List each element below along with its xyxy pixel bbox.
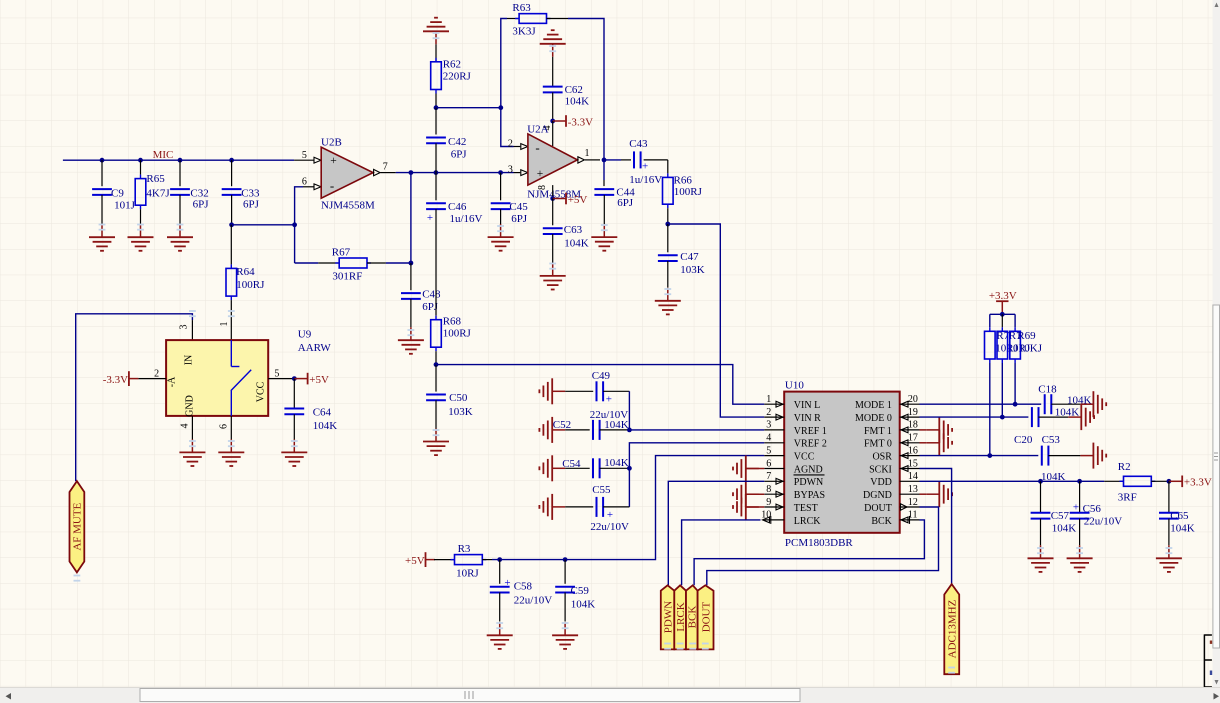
svg-text:+5V: +5V — [309, 374, 329, 386]
svg-text:VREF 1: VREF 1 — [794, 426, 827, 437]
svg-text:+3.3V: +3.3V — [1184, 477, 1212, 489]
svg-text:104K: 104K — [313, 420, 338, 432]
wire pin2 net — [501, 108, 514, 147]
svg-text:6PJ: 6PJ — [511, 213, 528, 225]
svg-text:PDWN: PDWN — [794, 477, 823, 488]
node output junction — [409, 170, 414, 175]
port AF MUTE — [70, 481, 85, 572]
svg-text:2: 2 — [508, 139, 513, 150]
power +3.3V pullups — [989, 290, 1017, 315]
svg-text:16: 16 — [908, 445, 918, 456]
ground R62 top — [423, 18, 449, 45]
power +5V U2A — [553, 193, 588, 206]
IC U10 PCM1803DBR — [761, 380, 919, 549]
capacitor C55 — [565, 484, 629, 533]
svg-text:OSR: OSR — [872, 452, 892, 463]
node junction R68/C50 — [434, 362, 439, 367]
capacitor C64 — [284, 379, 337, 440]
port DOUT — [698, 585, 714, 649]
capacitor C47 — [658, 224, 705, 288]
ground C63 — [540, 263, 566, 290]
svg-text:8: 8 — [766, 484, 771, 495]
node junction R63/pin2 — [498, 105, 503, 110]
capacitor C53 — [1041, 434, 1080, 483]
svg-text:20: 20 — [908, 394, 918, 405]
svg-text:103K: 103K — [680, 264, 705, 276]
power +5V U9 — [294, 373, 329, 386]
node junction +5V — [550, 196, 555, 201]
ground C32 — [167, 224, 193, 251]
svg-text:3RF: 3RF — [1118, 492, 1137, 504]
svg-text:R63: R63 — [512, 2, 531, 14]
svg-text:R64: R64 — [236, 266, 255, 278]
wire SCKI net — [920, 469, 952, 585]
wire OSR net — [920, 455, 1039, 457]
svg-text:19: 19 — [908, 407, 918, 418]
pin3 U9 lead — [179, 320, 193, 340]
svg-text:1u/16V: 1u/16V — [629, 174, 662, 186]
svg-text:C56: C56 — [1083, 503, 1102, 515]
capacitor C46 — [426, 173, 482, 316]
svg-text:14: 14 — [908, 471, 918, 482]
svg-text:BYPAS: BYPAS — [794, 490, 825, 501]
svg-text:-: - — [535, 140, 539, 155]
svg-text:IN: IN — [183, 355, 194, 366]
resistor R64 — [219, 225, 265, 340]
svg-text:R2: R2 — [1118, 461, 1131, 473]
svg-text:MIC: MIC — [153, 149, 174, 161]
svg-text:3: 3 — [766, 420, 771, 431]
svg-text:U2B: U2B — [321, 136, 342, 148]
svg-text:+3.3V: +3.3V — [989, 290, 1017, 302]
capacitor C44 — [594, 160, 635, 224]
wire MIC net — [63, 159, 294, 161]
svg-text:+5V: +5V — [405, 555, 425, 567]
capacitor C56 — [1070, 481, 1123, 545]
resistor R3 — [434, 543, 492, 580]
svg-text:MODE 1: MODE 1 — [855, 400, 892, 411]
svg-text:FMT 0: FMT 0 — [864, 439, 892, 450]
capacitor C50 — [426, 365, 473, 429]
capacitor C45 — [491, 173, 529, 225]
svg-text:1: 1 — [585, 148, 590, 159]
svg-text:104K: 104K — [604, 419, 629, 431]
ground AGND pin6 — [733, 456, 764, 482]
wire LRCK net — [682, 520, 761, 585]
wire VDD net — [920, 480, 1105, 482]
ground C48 — [398, 327, 424, 354]
svg-text:C64: C64 — [313, 407, 332, 419]
svg-text:-3.3V: -3.3V — [568, 116, 593, 128]
svg-text:C20: C20 — [1014, 434, 1033, 446]
port PDWN — [661, 585, 675, 649]
node MIC junction R65 — [138, 158, 143, 163]
wire pin4 U2A — [552, 121, 554, 146]
ground C45 — [488, 224, 514, 251]
node junction C33/pin6 — [292, 222, 297, 227]
svg-text:104K: 104K — [604, 457, 629, 469]
wire R69 to MODE1 — [1014, 363, 1016, 404]
svg-text:+: + — [504, 577, 510, 589]
port ADC13MHZ — [944, 584, 959, 674]
svg-text:C63: C63 — [564, 224, 583, 236]
capacitor C62 — [543, 57, 589, 121]
ground C49 — [539, 378, 565, 404]
svg-text:TEST: TEST — [794, 503, 818, 514]
ground C58 — [487, 622, 513, 649]
pin6 U9 + ground — [218, 416, 244, 466]
ground C47 — [655, 288, 681, 315]
wire VREF2 net — [629, 443, 764, 507]
svg-text:2: 2 — [154, 368, 159, 379]
node junction C42/C46 — [434, 170, 439, 175]
svg-text:GND: GND — [184, 395, 195, 417]
svg-text:18: 18 — [908, 420, 918, 431]
svg-text:+5V: +5V — [568, 194, 588, 206]
capacitor C43 — [604, 138, 668, 186]
svg-text:C46: C46 — [448, 201, 467, 213]
svg-text:DGND: DGND — [863, 490, 892, 501]
ground DGND pin13 — [920, 481, 953, 507]
wire pin6 to R67 — [295, 262, 319, 264]
svg-text:3K3J: 3K3J — [512, 25, 536, 37]
ground FMT0 pin17 — [920, 430, 953, 456]
svg-text:R66: R66 — [674, 175, 693, 187]
ground C57 — [1028, 545, 1054, 572]
svg-text:101J: 101J — [114, 199, 136, 211]
svg-text:C49: C49 — [592, 370, 611, 382]
svg-text:100RJ: 100RJ — [236, 279, 265, 291]
svg-text:104K: 104K — [1170, 523, 1195, 535]
svg-text:PCM1803DBR: PCM1803DBR — [785, 537, 854, 549]
svg-text:12: 12 — [908, 497, 918, 508]
svg-text:5: 5 — [766, 445, 771, 456]
svg-text:NJM4558M: NJM4558M — [321, 200, 375, 212]
svg-text:SCKI: SCKI — [869, 464, 892, 475]
svg-text:R3: R3 — [458, 543, 471, 555]
svg-text:22u/10V: 22u/10V — [1084, 516, 1123, 528]
svg-text:6PJ: 6PJ — [617, 197, 634, 209]
svg-text:104K: 104K — [571, 599, 596, 611]
ground C59 — [552, 622, 578, 649]
ground C18 — [1080, 391, 1106, 417]
svg-text:6: 6 — [302, 176, 307, 187]
svg-text:LRCK: LRCK — [794, 516, 821, 527]
resistor R68 — [431, 315, 472, 364]
switch inside U9 — [231, 340, 251, 416]
ground C20 — [1068, 404, 1094, 430]
svg-text:1u/16V: 1u/16V — [450, 213, 483, 225]
svg-text:LRCK: LRCK — [675, 602, 687, 631]
pin5 U9 lead — [268, 368, 294, 379]
svg-text:15: 15 — [908, 458, 918, 469]
capacitor C9 — [92, 160, 136, 224]
capacitor C33 — [222, 160, 260, 225]
svg-text:DOUT: DOUT — [700, 601, 712, 632]
ground FMT1 pin18 — [920, 417, 953, 443]
ground C64 — [281, 439, 307, 466]
svg-text:AGND: AGND — [794, 464, 823, 475]
svg-text:6PJ: 6PJ — [193, 198, 210, 210]
svg-text:5: 5 — [302, 150, 307, 161]
svg-text:C57: C57 — [1051, 510, 1070, 522]
svg-text:4K7J: 4K7J — [146, 187, 170, 199]
wire VIN L net — [436, 365, 764, 405]
capacitor C42 — [426, 108, 467, 173]
net label MIC — [153, 149, 174, 161]
svg-text:1: 1 — [766, 394, 771, 405]
svg-text:+: + — [642, 161, 648, 173]
capacitor C59 — [555, 560, 595, 622]
ground C54 — [539, 455, 565, 481]
svg-text:U2A: U2A — [527, 123, 548, 135]
svg-text:5: 5 — [274, 368, 279, 379]
svg-text:3: 3 — [508, 164, 513, 175]
node R67 junction — [409, 261, 414, 266]
resistor R62 — [431, 44, 472, 107]
wire VIN R net — [668, 224, 765, 417]
svg-text:AF MUTE: AF MUTE — [72, 502, 84, 550]
wire R71 to MODE0 — [1001, 363, 1003, 417]
wire DOUT net — [707, 507, 939, 585]
node junction C57 — [1038, 479, 1043, 484]
svg-text:-: - — [330, 178, 334, 193]
svg-text:6PJ: 6PJ — [243, 198, 260, 210]
wire AF MUTE to pin3 — [76, 314, 193, 481]
wire MODE0 net — [920, 416, 1029, 418]
svg-text:4: 4 — [766, 433, 771, 444]
svg-text:6PJ: 6PJ — [451, 149, 468, 161]
node junction R71 — [1000, 415, 1005, 420]
capacitor C20 — [1014, 406, 1079, 446]
svg-text:+: + — [607, 509, 613, 521]
node junction R66/C47 — [665, 222, 670, 227]
svg-text:C43: C43 — [629, 138, 648, 150]
svg-text:301RF: 301RF — [332, 270, 362, 282]
svg-text:C54: C54 — [562, 458, 581, 470]
svg-text:10KJ: 10KJ — [1019, 342, 1043, 354]
svg-text:R68: R68 — [443, 315, 462, 327]
ground C53 — [1080, 443, 1106, 469]
svg-text:C53: C53 — [1042, 434, 1061, 446]
svg-text:C48: C48 — [422, 289, 441, 301]
svg-text:VIN L: VIN L — [794, 400, 820, 411]
node MIC junction C9 — [100, 158, 105, 163]
resistor R69 — [1010, 327, 1043, 363]
wire R67 to node — [386, 262, 411, 264]
svg-text:FMT 1: FMT 1 — [864, 426, 892, 437]
node junction C56 — [1077, 479, 1082, 484]
svg-text:6: 6 — [766, 458, 771, 469]
svg-text:+: + — [537, 168, 544, 180]
svg-text:4: 4 — [180, 424, 191, 429]
svg-text:R67: R67 — [332, 246, 351, 258]
svg-text:C59: C59 — [571, 585, 590, 597]
node junction VREF1 — [627, 428, 632, 433]
node junction R69 — [1013, 402, 1018, 407]
resistor R65 — [135, 160, 170, 224]
op-amp U2A — [508, 123, 600, 200]
svg-text:PDWN: PDWN — [662, 601, 674, 633]
svg-text:VCC: VCC — [256, 381, 267, 402]
power +5V R3 — [405, 552, 435, 567]
wire R70 to OSR — [989, 363, 991, 456]
ground C50 — [423, 429, 449, 456]
resistor R63 — [507, 2, 568, 37]
svg-text:C45: C45 — [509, 201, 528, 213]
svg-text:C65: C65 — [1170, 510, 1189, 522]
capacitor C32 — [170, 160, 209, 224]
wire R63 right to pin1 node — [568, 19, 604, 160]
pin2 U9 + power -3.3V — [103, 368, 166, 386]
op-amp U2B — [294, 136, 396, 211]
vertical scrollbar — [1213, 0, 1220, 687]
svg-text:DOUT: DOUT — [864, 503, 892, 514]
svg-text:C50: C50 — [449, 392, 468, 404]
node junction +3.3V R2 — [1167, 479, 1172, 484]
capacitor C57 — [1031, 481, 1077, 545]
power -3.3V U2A — [553, 115, 593, 128]
node junction +3.3V — [1000, 312, 1005, 317]
svg-text:13: 13 — [908, 484, 918, 495]
node junction -3.3V — [550, 119, 555, 124]
svg-text:C52: C52 — [553, 419, 571, 431]
svg-text:6: 6 — [219, 424, 230, 429]
capacitor C54 — [562, 457, 629, 479]
resistor R2 — [1104, 461, 1169, 504]
svg-text:104K: 104K — [564, 238, 589, 250]
wire PDWN net — [668, 481, 764, 585]
svg-text:+: + — [330, 155, 337, 167]
component U9 AARW — [166, 328, 331, 417]
wire C49 to pin3 net — [628, 391, 630, 430]
svg-text:104K: 104K — [565, 96, 590, 108]
ground C9 — [89, 224, 115, 251]
node junction C58 — [497, 557, 502, 562]
svg-text:R65: R65 — [146, 173, 165, 185]
svg-text:22u/10V: 22u/10V — [514, 595, 553, 607]
power +3.3V R2 — [1169, 476, 1212, 489]
svg-text:103K: 103K — [448, 406, 473, 418]
wire U2B output net — [396, 172, 514, 174]
node junction C59 — [563, 557, 568, 562]
wire R63 left column — [501, 19, 507, 108]
svg-text:100RJ: 100RJ — [674, 186, 703, 198]
svg-text:C9: C9 — [111, 187, 124, 199]
ground C52 — [539, 417, 565, 443]
capacitor C18 — [1038, 384, 1091, 415]
svg-text:+: + — [1073, 501, 1079, 513]
svg-text:VCC: VCC — [794, 452, 815, 463]
wire +5V rail — [492, 456, 764, 560]
svg-text:C18: C18 — [1038, 384, 1057, 396]
node junction C45/pin3 — [498, 170, 503, 175]
port BCK — [686, 585, 699, 649]
node junction VREF2 — [627, 466, 632, 471]
node MIC junction C32 — [178, 158, 183, 163]
svg-text:17: 17 — [908, 433, 918, 444]
wire R62 to R63 column — [436, 107, 501, 109]
svg-text:3: 3 — [179, 325, 190, 330]
svg-text:C42: C42 — [448, 136, 466, 148]
ground C55 — [539, 494, 565, 520]
svg-text:104K: 104K — [1052, 523, 1077, 535]
sheet border fragment — [1204, 634, 1212, 692]
ground C65 — [1156, 545, 1182, 572]
svg-text:C47: C47 — [680, 251, 699, 263]
node junction C33 bottom — [229, 222, 234, 227]
svg-text:ADC13MHZ: ADC13MHZ — [946, 599, 958, 658]
svg-text:AARW: AARW — [298, 342, 332, 354]
svg-text:MODE 0: MODE 0 — [855, 413, 892, 424]
svg-text:7: 7 — [383, 161, 388, 172]
resistor R66 — [663, 160, 703, 224]
svg-text:+: + — [606, 394, 612, 406]
horizontal scrollbar — [0, 688, 1220, 703]
node pin1 junction — [602, 158, 607, 163]
port LRCK — [674, 585, 687, 649]
capacitor C58 — [490, 560, 552, 622]
svg-text:U10: U10 — [785, 380, 804, 392]
svg-text:C55: C55 — [592, 484, 611, 496]
ground BYPAS pin8 — [733, 481, 764, 507]
capacitor C63 — [543, 199, 589, 263]
capacitor C65 — [1159, 481, 1195, 545]
wire C33 to pin6 — [232, 224, 295, 226]
node MIC junction C33 — [229, 158, 234, 163]
svg-text:1: 1 — [219, 322, 230, 327]
wire U2B pin6 net — [295, 187, 303, 263]
svg-text:100RJ: 100RJ — [443, 328, 472, 340]
svg-text:220RJ: 220RJ — [443, 70, 472, 82]
svg-text:-3.3V: -3.3V — [103, 374, 128, 386]
wire BCK net — [694, 520, 924, 585]
svg-text:BCK: BCK — [871, 516, 892, 527]
pin8 U2A lead — [552, 185, 554, 198]
node junction R70 — [987, 453, 992, 458]
wire VREF1 net — [629, 429, 764, 431]
ground C44 — [591, 224, 617, 251]
node junction R62 — [434, 105, 439, 110]
svg-text:7: 7 — [766, 471, 771, 482]
svg-text:22u/10V: 22u/10V — [590, 521, 629, 533]
svg-text:R62: R62 — [443, 59, 461, 71]
svg-text:9: 9 — [766, 497, 771, 508]
wire MODE1 net — [920, 403, 1042, 405]
wire pullup tops — [990, 314, 1015, 327]
svg-text:C62: C62 — [565, 84, 583, 96]
svg-text:C58: C58 — [514, 580, 533, 592]
svg-text:+: + — [427, 212, 433, 224]
capacitor C52 — [553, 419, 630, 440]
svg-text:2: 2 — [766, 407, 771, 418]
capacitor C48 — [401, 263, 441, 327]
svg-text:U9: U9 — [298, 328, 312, 340]
ground R65 — [128, 224, 154, 251]
resistor R70 — [985, 327, 1019, 363]
svg-text:10RJ: 10RJ — [456, 567, 479, 579]
wire output column — [410, 173, 412, 263]
pin4 U9 + ground — [179, 416, 205, 466]
ground TEST pin9 — [733, 494, 764, 520]
svg-text:VIN R: VIN R — [794, 413, 821, 424]
capacitor C49 — [565, 370, 629, 421]
resistor R71 — [997, 314, 1031, 363]
ground C62 top — [540, 30, 566, 57]
resistor R67 — [318, 246, 386, 282]
svg-text:-A: -A — [166, 376, 177, 387]
svg-text:VDD: VDD — [870, 477, 892, 488]
